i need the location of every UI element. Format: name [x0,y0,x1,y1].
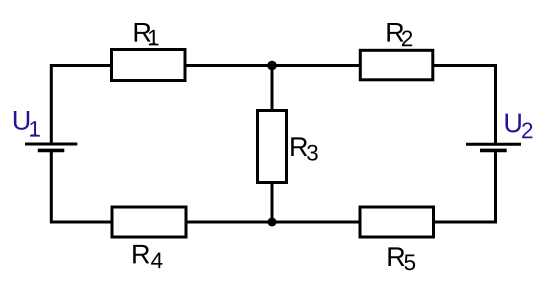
wire center vertical upper [271,66,274,113]
node top junction [267,61,277,71]
label U1 [14,111,40,137]
voltage source U1 [25,144,77,150]
wire right vertical upper [494,64,497,144]
voltage source U2 [466,144,521,150]
wire right vertical lower [494,150,497,223]
wire top horizontal [51,64,495,67]
label R5 [388,247,415,270]
wire left vertical lower [50,150,53,223]
resistor R5 [360,207,434,237]
wire center vertical lower [271,182,274,222]
wire bottom horizontal [51,221,495,224]
wire left vertical upper [50,64,53,144]
label U2 [505,114,532,139]
resistor R3 [258,111,287,183]
label R3 [291,137,318,160]
node bottom junction [268,218,277,227]
label R2 [387,23,412,46]
resistor R1 [112,50,186,81]
label R4 [133,245,162,268]
resistor R2 [360,50,433,80]
label R1 [135,23,159,45]
resistor R4 [112,207,186,237]
